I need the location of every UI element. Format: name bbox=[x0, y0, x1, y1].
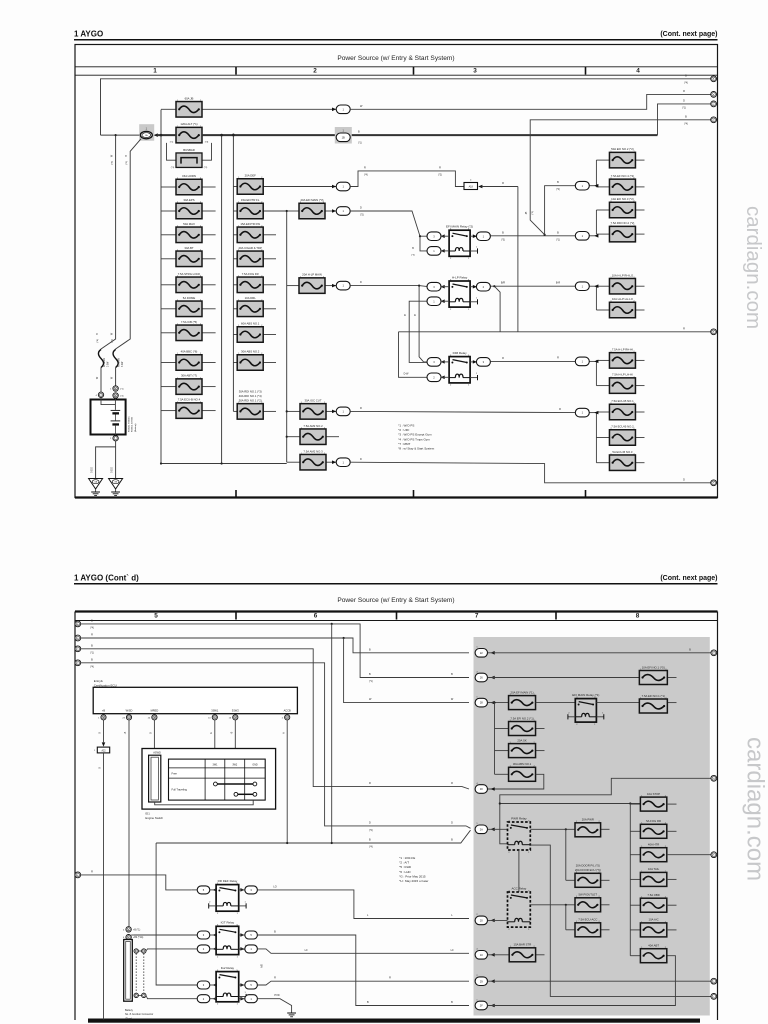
long row R to connector at right edge bbox=[399, 331, 712, 333]
svg-text:*6 : LHD: *6 : LHD bbox=[399, 870, 411, 874]
svg-text:(*4): (*4) bbox=[369, 847, 373, 849]
fuse 10A DRL (col2) bbox=[233, 308, 237, 310]
row R continues to vertical bbox=[482, 186, 518, 188]
connector node A battery bbox=[113, 386, 118, 391]
svg-text:40A ABT: 40A ABT bbox=[648, 944, 659, 948]
fuse 20A PWR bbox=[530, 828, 575, 830]
svg-text:(Rear): (Rear) bbox=[125, 1017, 132, 1020]
switch contacts row Full Traveling bbox=[214, 782, 218, 786]
connector circle H right edge bbox=[711, 775, 717, 781]
wire ECU 3SW2 into switch table bbox=[234, 720, 236, 793]
page 2 header underline bbox=[74, 583, 718, 585]
svg-text:LO: LO bbox=[273, 885, 276, 888]
fuse 30A BT (col1) bbox=[161, 258, 176, 260]
branch to EFI relay coil bbox=[420, 236, 429, 251]
pill IGT coil input bbox=[147, 948, 197, 950]
svg-text:*8 : w/ Stay & Start System: *8 : w/ Stay & Start System bbox=[398, 447, 435, 451]
pill connector feeding 10A EFI NO.3 (*2) group bbox=[590, 235, 597, 237]
pill connector on 60A JB output row bbox=[332, 108, 336, 112]
fuse 7.5A EFI NO.2 (*1) bbox=[495, 728, 509, 730]
row B/R from H-LP relay to right fuse bank bbox=[490, 285, 575, 287]
fuse 60A ABS NO.1 (col2) bbox=[233, 334, 237, 336]
pill pin 5 DIM relay output bbox=[470, 361, 476, 363]
key slider bar bbox=[149, 755, 161, 802]
svg-text:(*3): (*3) bbox=[501, 239, 505, 241]
svg-text:3SW1: 3SW1 bbox=[211, 708, 219, 712]
svg-text:5: 5 bbox=[154, 612, 158, 619]
wire +B continues to bottom bbox=[103, 753, 105, 1020]
row W to connector B bbox=[350, 94, 711, 109]
highlighted pill connector on main B row bbox=[335, 127, 352, 144]
svg-text:7.5A ECU-B NO.1: 7.5A ECU-B NO.1 bbox=[611, 399, 634, 403]
svg-text:3W1: 3W1 bbox=[213, 763, 219, 766]
arrow into connector 1A bbox=[154, 133, 158, 137]
svg-text:*4 : W/O PS Tmps Gym: *4 : W/O PS Tmps Gym bbox=[398, 437, 430, 441]
connector circle D right edge bbox=[711, 117, 717, 123]
wire PVD from IG2 coil to ground bbox=[257, 999, 291, 1013]
svg-text:DIM Relay: DIM Relay bbox=[453, 351, 468, 355]
ACCB distribution row bbox=[156, 842, 332, 844]
svg-text:Power Source (w/ Entry & Start: Power Source (w/ Entry & Start System) bbox=[337, 597, 454, 604]
svg-text:50A EFI NO.2 (*2): 50A EFI NO.2 (*2) bbox=[611, 147, 634, 151]
svg-text:(*2): (*2) bbox=[532, 211, 534, 215]
relay PWR Relay bbox=[488, 828, 508, 830]
svg-text:cardiagn.com: cardiagn.com bbox=[742, 206, 765, 329]
svg-text:ACC Relay: ACC Relay bbox=[511, 886, 526, 890]
wire ECU MRED into key slider bbox=[153, 720, 155, 758]
svg-text:R: R bbox=[502, 182, 504, 185]
svg-text:30A EPS: 30A EPS bbox=[183, 198, 194, 202]
svg-text:3.0W: 3.0W bbox=[108, 361, 110, 367]
svg-text:(*1): (*1) bbox=[682, 107, 686, 109]
svg-text:2A: 2A bbox=[480, 827, 483, 831]
fuse 5A FOG RR (JB right column) bbox=[630, 830, 640, 832]
svg-text:5-DG: 5-DG bbox=[92, 467, 94, 473]
svg-text:PVD: PVD bbox=[274, 994, 279, 997]
svg-text:R: R bbox=[364, 166, 366, 169]
fuse 40A BBC (*6) (col1) bbox=[161, 362, 176, 364]
fuse 15A EFI/TR FL (col2) bbox=[233, 210, 237, 212]
fuse 15A EFI/TR FW (col2) bbox=[233, 234, 237, 236]
svg-text:7.5A AM2 NO.2: 7.5A AM2 NO.2 bbox=[303, 424, 323, 428]
row from oval 2F to 40A ABT fuse bbox=[488, 956, 676, 1006]
svg-text:FL MAIN: FL MAIN bbox=[117, 358, 120, 367]
connector 1A oval bbox=[140, 131, 152, 138]
svg-text:15A EFI/TR FL: 15A EFI/TR FL bbox=[241, 198, 260, 202]
svg-text:4: 4 bbox=[636, 68, 640, 75]
bus wire right of col1 bbox=[221, 135, 223, 463]
svg-text:D: D bbox=[683, 99, 685, 102]
svg-text:IG2 Relay: IG2 Relay bbox=[221, 966, 235, 970]
fuse 7.5A ECU-B NO.2 bbox=[596, 437, 609, 439]
wire ABS NO.1 output loop to oval 30 bbox=[488, 774, 544, 789]
wire down from R row to DIM coil bbox=[399, 332, 429, 378]
svg-text:5-DG: 5-DG bbox=[112, 467, 114, 473]
pill connector feeding 7.5A ECU-B NO.1 group bbox=[590, 412, 597, 414]
gray junction-block region bbox=[474, 637, 710, 1016]
svg-text:20A DOOR P/L (*5): 20A DOOR P/L (*5) bbox=[576, 864, 600, 868]
svg-text:*2 : UFF: *2 : UFF bbox=[398, 428, 409, 432]
svg-text:D: D bbox=[451, 822, 453, 825]
svg-text:R: R bbox=[559, 408, 561, 411]
connector node B battery bbox=[113, 393, 118, 398]
fuse 7.5A ECU-B NO.1 bbox=[596, 411, 609, 413]
branch wire H-LP coil loop to DIM row bbox=[409, 301, 428, 362]
svg-text:10A A/C: 10A A/C bbox=[649, 918, 659, 922]
link PWR coil to ACC relay bbox=[518, 850, 520, 892]
wire ECU W/SD down to +B connector nodes bbox=[128, 720, 130, 927]
svg-text:(*1): (*1) bbox=[112, 339, 114, 343]
bus ACC output down to ECU-ACC fuse bbox=[565, 905, 567, 930]
bus wire EFI col feed bbox=[286, 211, 288, 462]
wire node B to IGT switch bbox=[128, 935, 130, 940]
svg-text:20A DEF: 20A DEF bbox=[245, 174, 256, 178]
fuse bank EFI NO.2/NO.4 feed wire bbox=[574, 185, 576, 187]
svg-text:(*3): (*3) bbox=[205, 142, 209, 144]
svg-text:7.5A OBD: 7.5A OBD bbox=[647, 893, 659, 897]
svg-text:R: R bbox=[91, 871, 93, 874]
svg-text:*7 : MMT: *7 : MMT bbox=[398, 442, 410, 446]
svg-text:7.5A ECU-ACC: 7.5A ECU-ACC bbox=[578, 918, 597, 922]
svg-text:10A H-LP LH-LO: 10A H-LP LH-LO bbox=[612, 297, 634, 301]
svg-text:R: R bbox=[369, 782, 371, 785]
svg-text:(*4): (*4) bbox=[90, 628, 94, 630]
fuse 7.5A H-LP LH-HI bbox=[596, 385, 609, 387]
feed row for right fuse column bbox=[500, 803, 641, 805]
connector circle A left edge p2 bbox=[75, 621, 81, 627]
arrow into A18 bbox=[478, 185, 482, 189]
svg-text:R: R bbox=[557, 356, 559, 359]
svg-text:7.5A STRG LOCK: 7.5A STRG LOCK bbox=[178, 272, 201, 276]
svg-text:B-R: B-R bbox=[556, 282, 561, 285]
fuse 7.5A AM2 NO.2 bbox=[287, 436, 300, 438]
JB bus below oval 28 bbox=[494, 703, 496, 775]
svg-text:15A EFI/TR FW: 15A EFI/TR FW bbox=[240, 222, 260, 226]
riser wire from battery feed row up to connector A row bbox=[101, 79, 712, 135]
column header bottom line bbox=[75, 74, 718, 76]
row from oval 22 to right connector G bbox=[488, 652, 711, 654]
svg-text:3SW2: 3SW2 bbox=[232, 708, 240, 712]
svg-text:R: R bbox=[91, 634, 93, 637]
wire row A stepping to JB oval 26 and ACCB merge bbox=[81, 624, 469, 678]
branch from H-LP output down to R row bbox=[494, 286, 500, 332]
svg-text:(*5): (*5) bbox=[411, 255, 415, 257]
pill pin 3 EFI relay bbox=[427, 232, 441, 241]
connector circle D left edge p2 bbox=[75, 660, 81, 666]
svg-text:30A IGC CUT: 30A IGC CUT bbox=[304, 398, 321, 402]
pill RR DEF output bbox=[245, 886, 258, 894]
row B from IGT to JB oval 2F bbox=[257, 935, 469, 1006]
svg-text:BUSBAR: BUSBAR bbox=[183, 148, 195, 152]
svg-text:3W2: 3W2 bbox=[232, 763, 238, 766]
row D from 7.5A AM2 NO.3 to connector bbox=[332, 460, 336, 464]
svg-text:cardiagn.com: cardiagn.com bbox=[742, 737, 768, 881]
junction connector taps lower bbox=[134, 993, 138, 997]
svg-text:-B: -B bbox=[231, 731, 234, 734]
JB oval 10 bbox=[475, 951, 487, 960]
fuse 5A ECU-B NO.3 bbox=[596, 462, 609, 464]
svg-text:FL MAIN: FL MAIN bbox=[103, 358, 106, 367]
fuse 7.5A H-LP RH-HI bbox=[596, 359, 609, 361]
svg-text:20A DOOR ECU (*6): 20A DOOR ECU (*6) bbox=[575, 868, 601, 872]
svg-text:60A JB: 60A JB bbox=[185, 96, 194, 100]
svg-text:30A ABS NO.2: 30A ABS NO.2 bbox=[241, 350, 260, 354]
right fuse column bus bbox=[629, 804, 631, 956]
fuse 10A TAIL (JB right column) bbox=[630, 878, 640, 880]
fuse 30A IGC CUT bbox=[287, 410, 300, 412]
ground for IG2 coil bbox=[287, 1012, 296, 1014]
svg-text:10A DRL: 10A DRL bbox=[245, 296, 257, 300]
svg-text:(Battery): (Battery) bbox=[134, 423, 137, 432]
wire to right connector H via vertical 611 bbox=[500, 778, 711, 844]
svg-text:6: 6 bbox=[314, 612, 318, 619]
fuse 15A BAR STR bbox=[488, 954, 510, 956]
fuse 40A HTR (JB right column) bbox=[630, 854, 640, 856]
svg-text:7.5A H-LP RH-HI: 7.5A H-LP RH-HI bbox=[612, 347, 633, 351]
svg-text:*3 : W/O PS Except Gym: *3 : W/O PS Except Gym bbox=[398, 433, 432, 437]
svg-text:7.5A ECU-B NO.2: 7.5A ECU-B NO.2 bbox=[611, 425, 634, 429]
svg-text:(*4): (*4) bbox=[556, 189, 560, 191]
svg-text:*H : May 2015 or later: *H : May 2015 or later bbox=[399, 879, 428, 883]
svg-text:20A SK: 20A SK bbox=[517, 738, 526, 742]
connector circle K right edge (40A HTR) bbox=[711, 852, 717, 858]
svg-text:A/B: A/B bbox=[261, 964, 264, 968]
relay ACC Relay bbox=[488, 919, 508, 921]
svg-text:D: D bbox=[360, 458, 362, 461]
pill IG2 coil output bbox=[245, 995, 258, 1003]
pill IG2 coil input bbox=[147, 998, 197, 1000]
bus PWR output down to DOOR fuse bbox=[565, 829, 567, 880]
svg-text:ID1: ID1 bbox=[145, 812, 150, 816]
engine switch outer box bbox=[142, 749, 276, 810]
diagram 1 outer frame bbox=[75, 45, 718, 498]
svg-text:(*4): (*4) bbox=[112, 161, 114, 165]
svg-text:J: J bbox=[713, 981, 714, 983]
fuse 20A EFI MAIN (*3) bbox=[287, 210, 299, 212]
svg-text:7.5A EFI NO.4 (*2): 7.5A EFI NO.4 (*2) bbox=[611, 174, 634, 178]
svg-text:20A EFI MAIN (*1): 20A EFI MAIN (*1) bbox=[511, 690, 534, 694]
svg-text:+B2 (*1G): +B2 (*1G) bbox=[133, 937, 144, 939]
svg-text:ACCB: ACCB bbox=[284, 708, 291, 712]
svg-text:+B: +B bbox=[102, 708, 106, 712]
svg-text:R: R bbox=[451, 782, 453, 785]
svg-text:Free: Free bbox=[172, 772, 178, 776]
svg-text:KGB52, B KGB: KGB52, B KGB bbox=[132, 417, 134, 432]
svg-text:*1 : 1KR-FE: *1 : 1KR-FE bbox=[399, 856, 415, 860]
pill connector feeding 50A EFI NO.2 (*2) group bbox=[590, 185, 597, 187]
fuse 30A/40A/50A RDI NO.1 (col2) bbox=[233, 410, 237, 412]
connector node 4 on battery left post bbox=[98, 392, 103, 397]
connector node 1 battery bottom bbox=[113, 436, 118, 441]
svg-text:(*2): (*2) bbox=[369, 830, 373, 832]
fuse 7.5A ICB (*5) (col1) bbox=[161, 332, 176, 334]
connector node +B (*1) bbox=[126, 927, 131, 932]
svg-text:7.5A EFI NO.2 (*1): 7.5A EFI NO.2 (*1) bbox=[510, 716, 533, 720]
vertical wire R to lower R row bbox=[517, 187, 519, 332]
JB oval 26 bbox=[475, 673, 487, 682]
pill pin 5 H-LP relay output bbox=[470, 286, 476, 288]
JB oval 20 bbox=[475, 916, 487, 925]
svg-text:(Cont. next page): (Cont. next page) bbox=[660, 575, 717, 582]
busbar (parallel with 120A ALT) bbox=[167, 143, 177, 160]
fuse 60A JB (col1) bbox=[161, 108, 176, 110]
fuse bank bus x596 (7.5A H-LP RH-HI group) bbox=[595, 360, 597, 385]
svg-text:60A ABS NO.1: 60A ABS NO.1 bbox=[241, 322, 260, 326]
diagram 2 top border (thick) bbox=[75, 610, 718, 612]
pill RR DEF input bbox=[191, 889, 197, 891]
bottom border ticks diagram 1 bbox=[235, 490, 237, 498]
bus wire col2 fuse feed bbox=[232, 135, 234, 412]
ground GB bbox=[109, 479, 123, 490]
junction connector bus bar bbox=[124, 940, 133, 1002]
svg-text:(*4): (*4) bbox=[684, 123, 688, 125]
svg-text:10A TAIL: 10A TAIL bbox=[648, 867, 660, 871]
svg-text:A18: A18 bbox=[469, 185, 474, 188]
pill IG2 switch output bbox=[245, 981, 258, 989]
JB oval 29 bbox=[475, 977, 487, 986]
fuse 10A H-LP LH-LO bbox=[596, 309, 609, 311]
pill connector feeding 10A H-LP RH-LO group bbox=[590, 285, 597, 287]
row B up to connector C bbox=[658, 104, 712, 135]
fuse 20A EFI MAIN (*1) bbox=[488, 702, 509, 704]
svg-text:*5 : RHD: *5 : RHD bbox=[399, 865, 412, 869]
fuse 30A ABS NO.2 (col2) bbox=[233, 362, 237, 364]
wire battery B feed from connector 1A bbox=[116, 139, 141, 350]
svg-text:40A BBC (*6): 40A BBC (*6) bbox=[181, 350, 198, 354]
svg-text:No. 8 Junction Connector: No. 8 Junction Connector bbox=[125, 1013, 153, 1016]
svg-text:30A BT: 30A BT bbox=[184, 246, 193, 250]
connector circle D2 right edge bbox=[711, 480, 717, 486]
fuse 10A STOP (JB right column) bbox=[630, 803, 640, 805]
svg-text:*2 : A/T: *2 : A/T bbox=[399, 861, 409, 865]
svg-text:(*4): (*4) bbox=[90, 666, 94, 668]
svg-text:15A HORN: 15A HORN bbox=[182, 174, 196, 178]
pill pin 5 EFI relay output bbox=[470, 235, 476, 237]
pill connector feeding 7.5A H-LP RH-HI group bbox=[590, 360, 597, 362]
junction connector taps upper bbox=[134, 949, 138, 953]
connector 1A (battery feed) highlight bbox=[139, 124, 154, 141]
svg-text:15A BAR STR: 15A BAR STR bbox=[514, 943, 532, 947]
svg-text:120A ALT (*1): 120A ALT (*1) bbox=[180, 122, 197, 126]
row B*3 from EFI relay to right fuse bank bbox=[490, 235, 575, 237]
row R from DIM relay to H-LP HI fuses bbox=[490, 360, 575, 362]
wire link to battery left bbox=[100, 368, 102, 393]
fuse 20A CIGAR & TDP (col2) bbox=[233, 258, 237, 260]
svg-text:D-W: D-W bbox=[404, 372, 410, 375]
fuse 7.5A OBD (JB right column) bbox=[630, 904, 640, 906]
fuse 50A EFI NO.2 (*2) bbox=[596, 159, 609, 161]
connector circle B right edge bbox=[711, 92, 717, 98]
switch internal ground loop bbox=[155, 800, 254, 805]
JB oval 22 bbox=[475, 649, 487, 658]
svg-text:7.5A EFI NO.1 (*1): 7.5A EFI NO.1 (*1) bbox=[642, 694, 665, 698]
fuse 7.5A ECU-ACC bbox=[566, 929, 575, 931]
svg-text:(*2): (*2) bbox=[360, 215, 364, 217]
svg-text:R: R bbox=[274, 977, 276, 980]
svg-text:5A DOME: 5A DOME bbox=[183, 296, 196, 300]
arrow into A22 bbox=[102, 742, 106, 746]
JB oval 2F bbox=[475, 1001, 487, 1010]
svg-text:*G : Prior May 2015: *G : Prior May 2015 bbox=[399, 874, 426, 878]
row R from 30A IGC CUT to ECU-B fuse bank bbox=[332, 410, 336, 414]
branch wire H-LP switch row down to DIM relay bbox=[419, 286, 429, 362]
svg-text:3: 3 bbox=[473, 68, 477, 75]
svg-text:(*4): (*4) bbox=[364, 174, 368, 176]
svg-text:(Cont. next page): (Cont. next page) bbox=[660, 31, 717, 38]
pill pin 2 DIM relay coil bbox=[427, 373, 441, 382]
svg-text:1B: 1B bbox=[342, 135, 345, 139]
svg-text:(*2): (*2) bbox=[438, 174, 442, 176]
fuse 15A P/OUTLET bbox=[530, 904, 575, 906]
fuse 7.5A AM2 NO.3 bbox=[287, 461, 300, 463]
fuse 15A HORN (col1) bbox=[161, 186, 176, 188]
svg-text:D: D bbox=[360, 281, 362, 284]
junction box A18 bbox=[464, 183, 478, 190]
fuse 10A A/C (JB right column) bbox=[630, 929, 640, 931]
svg-text:1 AYGO (Cont` d): 1 AYGO (Cont` d) bbox=[74, 574, 139, 583]
svg-text:Battery: Battery bbox=[125, 1009, 134, 1012]
wire battery to grounds bbox=[115, 441, 117, 479]
fuse 7.5A EFI NO.4 (*2) bbox=[596, 186, 609, 188]
diagram 2 bottom border (thick) bbox=[88, 1019, 700, 1023]
row from oval 29 to right connector J bbox=[488, 980, 711, 982]
fuse 30A ABT (*7) (col1) bbox=[161, 386, 176, 388]
wire down to IG2 relay feed bbox=[156, 843, 191, 985]
svg-text:W/SD: W/SD bbox=[126, 708, 133, 712]
svg-text:(*3): (*3) bbox=[171, 167, 175, 169]
svg-text:KGB41, KGB53,: KGB41, KGB53, bbox=[129, 416, 131, 432]
fuse 7.5A FOG FR (col2) bbox=[233, 284, 237, 286]
wire ECU +B down through A22 fuse bbox=[103, 720, 105, 742]
fuse 20A DOOR P/L (*5) bbox=[566, 879, 575, 881]
row to connector D with funnel down-merge bbox=[530, 120, 711, 235]
connector circle A right edge bbox=[711, 76, 717, 82]
fuse 40A ABT (JB right column) bbox=[630, 955, 640, 957]
svg-text:10A EFI NO.3 (*2): 10A EFI NO.3 (*2) bbox=[611, 197, 634, 201]
battery bbox=[91, 400, 126, 435]
pill IG2 switch input bbox=[156, 984, 197, 986]
connector circle B left edge p2 bbox=[75, 635, 81, 641]
ground GA bbox=[89, 479, 103, 490]
connector circle G right edge bbox=[711, 650, 717, 656]
svg-text:(*2): (*2) bbox=[204, 167, 208, 169]
fuse 7.5A EFI NO.1 (*1) bbox=[596, 702, 639, 704]
svg-text:8: 8 bbox=[636, 612, 640, 619]
connector circle J right edge bbox=[711, 978, 717, 984]
svg-text:(*4): (*4) bbox=[120, 396, 124, 398]
switch contact table bbox=[169, 759, 266, 800]
svg-text:5A FOG RR: 5A FOG RR bbox=[646, 819, 661, 823]
connector circle R right edge bbox=[711, 329, 717, 335]
svg-text:7.5A ICB (*5): 7.5A ICB (*5) bbox=[181, 320, 197, 324]
wire row E to RR DEF relay bbox=[81, 875, 192, 890]
svg-text:7: 7 bbox=[475, 612, 479, 619]
svg-text:7.5A AM2 NO.3: 7.5A AM2 NO.3 bbox=[303, 449, 323, 453]
pill IGT switch output bbox=[245, 931, 258, 939]
svg-text:(*1): (*1) bbox=[120, 389, 124, 391]
diagram 1 title separator line bbox=[75, 66, 718, 68]
svg-text:(*1): (*1) bbox=[369, 681, 373, 683]
wire PWR coil output to connector I bbox=[530, 845, 711, 996]
connector circle C left edge p2 bbox=[75, 646, 81, 652]
svg-text:40A RDI NO.1 (*4): 40A RDI NO.1 (*4) bbox=[239, 394, 262, 398]
fuse 5A DOME (col1) bbox=[161, 308, 176, 310]
svg-text:20A H-LP MAIN: 20A H-LP MAIN bbox=[302, 273, 322, 277]
svg-text:D: D bbox=[360, 207, 362, 210]
svg-text:7.5A RDI NO.2 (*2): 7.5A RDI NO.2 (*2) bbox=[611, 221, 635, 225]
svg-text:R: R bbox=[360, 407, 362, 410]
fuse 20A DEF (col2) bbox=[233, 186, 237, 188]
